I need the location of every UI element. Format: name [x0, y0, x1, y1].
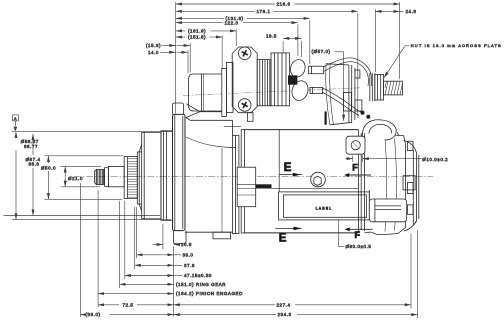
solenoid rear body	[326, 64, 355, 125]
svg-text:(15.9): (15.9)	[146, 43, 161, 48]
svg-text:218.6: 218.6	[277, 2, 291, 7]
plate lower tab	[247, 113, 253, 122]
svg-text:(151.8): (151.8)	[188, 35, 206, 40]
diameter dim Ø50.0	[41, 156, 124, 200]
terminal black block	[288, 75, 297, 84]
solenoid front cap	[189, 74, 204, 111]
solenoid rear pads	[355, 70, 362, 111]
plate screw top	[238, 47, 251, 60]
flange bottom lobe	[173, 231, 186, 244]
motor terminal strap	[325, 112, 327, 125]
lower mounting foot	[369, 190, 406, 222]
ribbed boot	[257, 60, 271, 106]
eye pad with Ø10 hole	[346, 136, 365, 154]
svg-text:F: F	[352, 163, 358, 173]
dimension 37.8	[135, 207, 195, 269]
battery stud washers	[370, 73, 375, 101]
svg-text:Ø10.0±0.2: Ø10.0±0.2	[422, 157, 448, 162]
svg-text:86.6: 86.6	[29, 162, 40, 167]
extension line: flange reference face	[175, 2, 177, 114]
dimension 18.5	[266, 34, 301, 57]
section arrow E top	[279, 162, 303, 176]
pilot ring Ø87.4	[142, 132, 161, 219]
main shaft centerline	[74, 176, 433, 178]
section arrow F top	[344, 163, 371, 177]
case-to-endframe joint	[358, 130, 364, 233]
label plate	[279, 192, 370, 220]
through-bolt lug on case front	[237, 167, 256, 207]
callout Ø10.0±0.2	[346, 156, 449, 163]
svg-text:24.8: 24.8	[406, 9, 417, 14]
dimension 36.0	[137, 207, 194, 258]
rear cap boss	[403, 176, 415, 190]
through-bolt head	[311, 172, 326, 187]
svg-text:LABEL: LABEL	[316, 207, 333, 211]
dimension 234.3	[174, 230, 418, 318]
housing-to-case joint band B	[241, 130, 244, 233]
solenoid switch body	[202, 74, 227, 111]
svg-text:E: E	[279, 233, 287, 245]
housing-to-case joint band A	[232, 135, 239, 233]
svg-text:47.15±0.80: 47.15±0.80	[184, 273, 212, 278]
diameter dim Ø21.0	[60, 166, 101, 186]
terminal boot bottom	[289, 79, 310, 103]
drive housing bottom tab	[213, 232, 231, 239]
retainer ring	[105, 168, 109, 187]
section arrow E bottom	[275, 227, 301, 245]
dimension (15.9)	[146, 43, 190, 73]
dimension 218.6	[176, 2, 400, 7]
callout NUT IS 18.0 mm ACROSS FLATS	[384, 43, 502, 78]
plate screw bottom	[238, 99, 251, 112]
rear endframe outline	[365, 134, 406, 235]
terminal boot top	[288, 58, 307, 79]
battery stud nut	[375, 75, 384, 101]
svg-text:14.0: 14.0	[148, 50, 159, 55]
svg-text:122.0: 122.0	[225, 20, 239, 25]
svg-text:18.5: 18.5	[266, 34, 277, 39]
drive housing gusset	[186, 104, 226, 118]
section arrow F bottom	[345, 227, 373, 240]
dimension 72.5	[98, 302, 174, 307]
svg-text:Ø21.0: Ø21.0	[68, 176, 83, 181]
diameter dim Ø88.87/88.77	[12, 132, 173, 220]
pilot ring Ø88.87	[161, 131, 173, 221]
armature shaft Ø21	[108, 166, 124, 186]
dimension (151.8)	[176, 35, 222, 40]
dimension 47.15±0.80	[125, 201, 212, 279]
svg-text:NUT IS 18.0 mm ACROSS FLATS: NUT IS 18.0 mm ACROSS FLATS	[411, 43, 502, 48]
svg-text:A: A	[14, 116, 17, 121]
wire from solenoid top terminal	[324, 58, 372, 86]
svg-text:10.8: 10.8	[181, 242, 192, 247]
solenoid mounting plate	[232, 47, 257, 113]
svg-text:Ø90.0±0.5: Ø90.0±0.5	[346, 244, 372, 249]
flange top lobe	[173, 103, 184, 114]
battery terminal stud thread	[384, 81, 403, 95]
wire from solenoid bottom terminal	[322, 88, 362, 116]
dimension (89.0)	[80, 183, 173, 317]
extension lines to solenoid from rows	[235, 29, 237, 46]
dimension 178.1	[176, 9, 358, 14]
motor terminal nuts	[361, 111, 371, 119]
svg-text:(161.9): (161.9)	[188, 28, 206, 33]
pinion gear	[124, 157, 137, 199]
svg-text:36.0: 36.0	[183, 252, 194, 257]
dimension (161.9)	[176, 28, 236, 33]
field case outline	[245, 130, 359, 233]
drive housing body	[185, 118, 241, 233]
terminal sleeve bottom	[310, 87, 322, 93]
svg-text:E: E	[284, 162, 292, 174]
svg-text:37.8: 37.8	[184, 263, 195, 268]
terminal flange block	[271, 53, 289, 106]
svg-text:72.5: 72.5	[123, 302, 134, 307]
svg-text:F: F	[355, 230, 361, 240]
svg-text:234.3: 234.3	[278, 312, 292, 317]
bottom common extension line at flange face	[173, 246, 175, 317]
dimension 227.4	[174, 234, 411, 309]
dimension (131.8)	[176, 16, 310, 21]
svg-text:178.1: 178.1	[257, 9, 271, 14]
dimension (151.0) RING GEAR	[120, 201, 227, 288]
svg-text:227.4: 227.4	[277, 302, 291, 307]
svg-text:(151.0) RING GEAR: (151.0) RING GEAR	[176, 282, 226, 287]
pole shoe screw slot	[256, 184, 272, 188]
endframe clips	[408, 141, 414, 214]
callout Ø90.0±0.5	[337, 217, 371, 250]
dimension 24.8	[375, 2, 416, 79]
lifting hook	[363, 120, 400, 140]
dimension 10.8	[153, 224, 192, 249]
shaft end washer stack	[94, 170, 104, 185]
dimension (184.2) PINION ENGAGED	[98, 190, 243, 307]
solenoid centerline	[183, 88, 360, 96]
svg-text:(184.2) PINION ENGAGED: (184.2) PINION ENGAGED	[176, 291, 243, 296]
svg-text:88.77: 88.77	[24, 144, 38, 149]
nose housing front face	[137, 144, 141, 211]
callout (Ø57.0)	[312, 49, 344, 121]
shift lever cover	[344, 93, 352, 112]
rear cap	[404, 141, 419, 232]
datum A symbol	[12, 115, 18, 131]
diameter dim Ø87.4/86.6	[4, 134, 161, 216]
svg-text:(Ø57.0): (Ø57.0)	[312, 49, 331, 54]
terminal sleeve top	[309, 66, 324, 74]
dimension 14.0	[148, 50, 188, 73]
solenoid front ring	[222, 69, 227, 117]
solenoid collar	[226, 63, 233, 113]
svg-text:Ø50.0: Ø50.0	[41, 165, 56, 170]
dimension 122.0	[176, 20, 298, 25]
mounting flange	[173, 114, 186, 230]
svg-text:(89.0): (89.0)	[86, 312, 101, 317]
